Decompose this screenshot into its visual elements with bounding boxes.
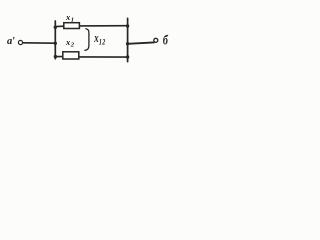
- resistor x2 box: [63, 52, 79, 59]
- mutual coupling arrow x12: [85, 29, 89, 51]
- resistor x1 box: [64, 23, 80, 29]
- wire top branch left lead: [55, 25, 64, 27]
- junction dot right-bottom: [126, 55, 129, 58]
- svg-text:х1: х1: [65, 12, 74, 23]
- junction dot left-middle: [54, 42, 57, 45]
- wire top branch right lead: [80, 25, 128, 27]
- wire a' to left bus: [23, 42, 55, 44]
- junction dot left-bottom: [54, 55, 57, 58]
- svg-text:х12: х12: [93, 32, 105, 47]
- node a' terminal circle: [18, 40, 22, 44]
- wire left vertical bus: [54, 21, 56, 59]
- wire right vertical bus: [127, 18, 129, 61]
- junction dot right-middle: [126, 42, 129, 45]
- node b terminal circle: [154, 38, 158, 42]
- svg-text:х2: х2: [65, 37, 75, 48]
- wire right bus to terminal b: [128, 42, 154, 43]
- svg-text:б: б: [163, 32, 169, 48]
- svg-text:а′: а′: [7, 36, 15, 47]
- junction dot left-top: [54, 26, 57, 29]
- junction dot right-top: [126, 24, 129, 27]
- wire bottom branch left lead: [55, 56, 63, 58]
- wire bottom branch right lead: [79, 56, 128, 58]
